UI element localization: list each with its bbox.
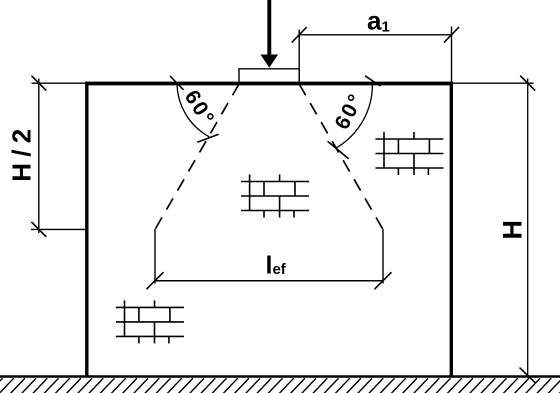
svg-text:H: H — [498, 220, 528, 240]
svg-text:H/2: H/2 — [6, 122, 36, 181]
